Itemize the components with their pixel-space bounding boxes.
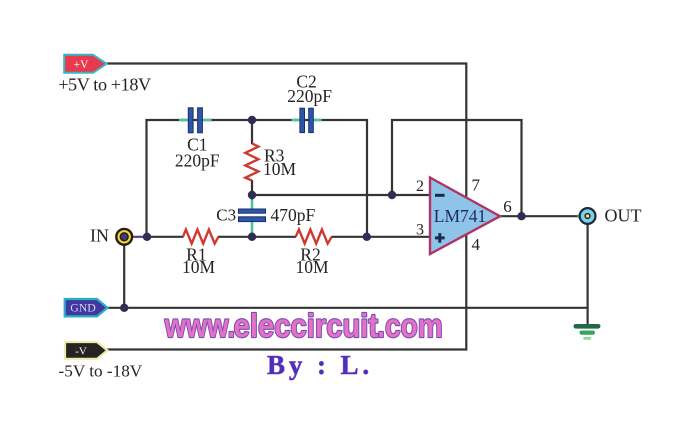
svg-text:10M: 10M	[182, 257, 216, 277]
svg-text:LM741: LM741	[434, 206, 487, 226]
svg-text:10M: 10M	[263, 159, 297, 179]
svg-text:4: 4	[472, 235, 481, 254]
svg-text:By : L.: By : L.	[267, 350, 373, 380]
svg-text:470pF: 470pF	[271, 205, 316, 225]
svg-text:OUT: OUT	[605, 206, 642, 226]
svg-text:220pF: 220pF	[175, 151, 220, 171]
svg-text:.com: .com	[377, 307, 442, 345]
svg-text:+5V to +18V: +5V to +18V	[58, 74, 151, 94]
svg-text:-V: -V	[75, 345, 87, 357]
svg-text:7: 7	[472, 176, 481, 195]
svg-text:220pF: 220pF	[287, 86, 332, 106]
svg-text:+V: +V	[74, 59, 89, 71]
svg-text:eleccircuit: eleccircuit	[234, 307, 379, 344]
svg-text:-5V to -18V: -5V to -18V	[59, 362, 143, 381]
svg-text:6: 6	[503, 197, 512, 216]
svg-text:C3: C3	[216, 206, 236, 225]
svg-text:10M: 10M	[295, 257, 329, 277]
svg-text:3: 3	[416, 222, 424, 239]
svg-text:IN: IN	[90, 226, 109, 246]
svg-text:GND: GND	[70, 301, 96, 315]
svg-text:www.: www.	[164, 307, 235, 344]
svg-text:2: 2	[416, 178, 424, 195]
